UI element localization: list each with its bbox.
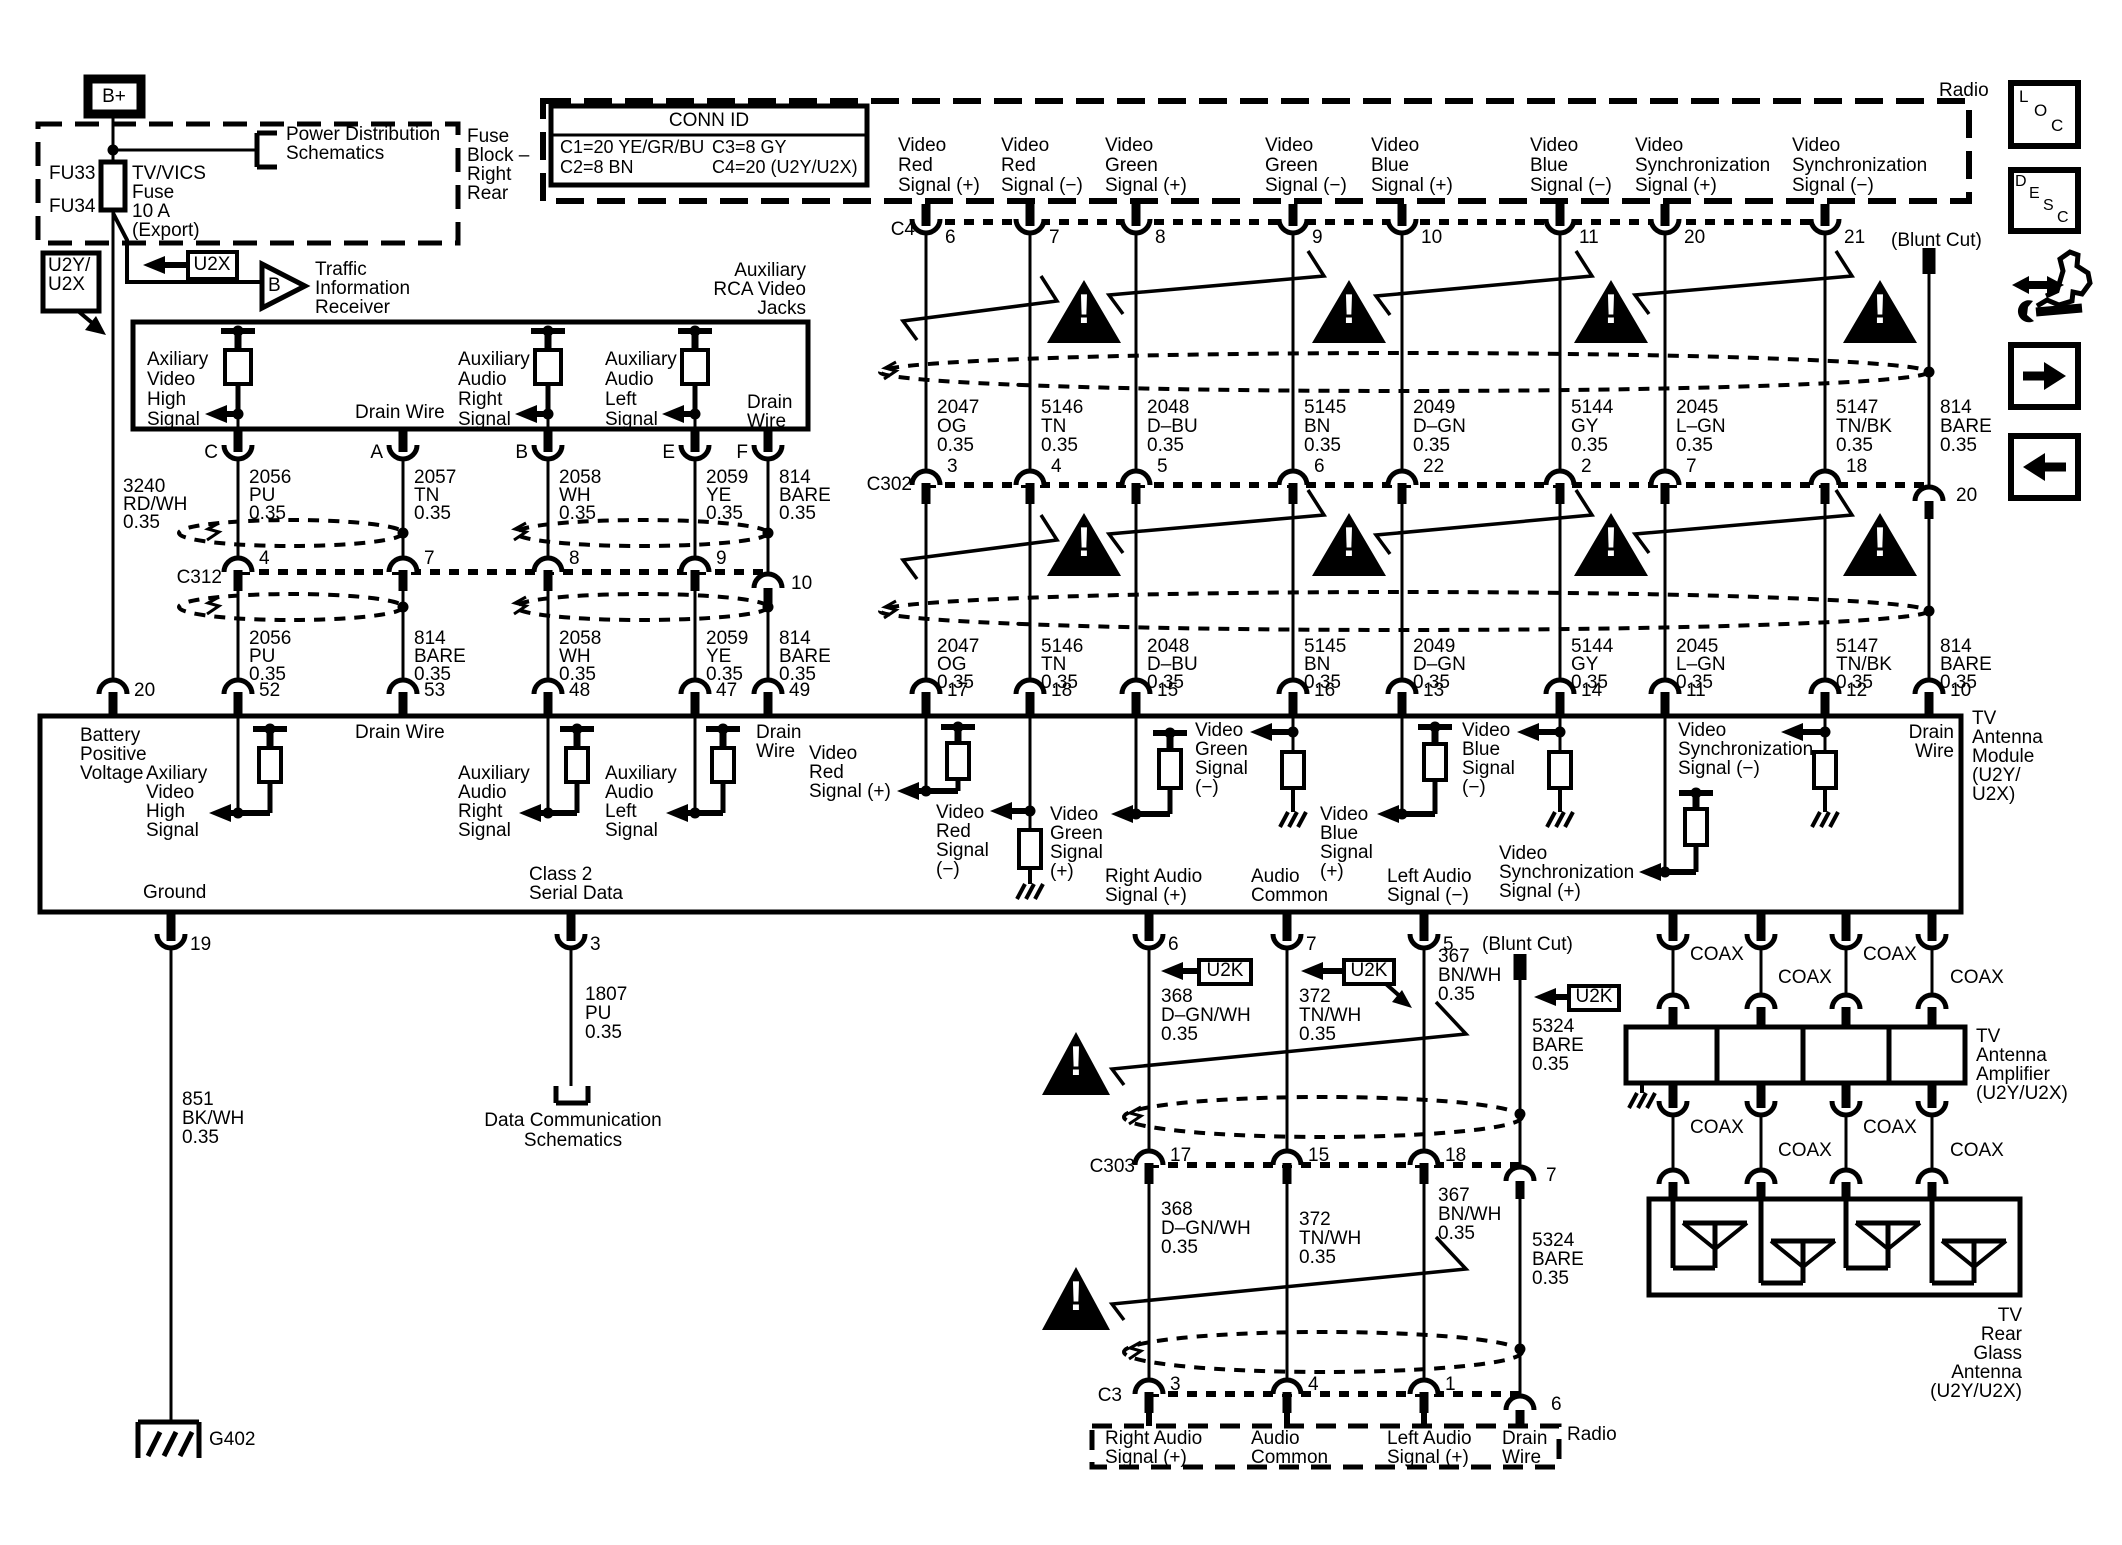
svg-text:L–GN: L–GN	[1676, 416, 1726, 437]
svg-text:Class 2: Class 2	[529, 864, 592, 885]
wire 851 BK/WH 0.35 label	[182, 1089, 244, 1148]
module video green minus input	[1250, 716, 1306, 827]
svg-text:Signal (+): Signal (+)	[1105, 885, 1187, 906]
module pin 11 connector	[1651, 680, 1706, 716]
connector C312 pin 9	[681, 548, 727, 591]
svg-text:17: 17	[947, 680, 968, 701]
wire B to C312	[547, 459, 550, 558]
module pin 17 connector	[912, 680, 968, 716]
warning triangle 2 row2	[1312, 513, 1386, 576]
svg-text:Video: Video	[1530, 135, 1578, 156]
svg-text:RCA Video: RCA Video	[713, 279, 806, 300]
svg-text:Fuse: Fuse	[132, 182, 174, 203]
svg-text:1807: 1807	[585, 984, 627, 1005]
connector terminal B	[515, 429, 562, 463]
svg-text:Auxiliary: Auxiliary	[605, 763, 677, 784]
svg-text:18: 18	[1051, 680, 1072, 701]
coax label 2 upper	[1778, 967, 1832, 988]
node shield drain junction audio row2	[1515, 1344, 1526, 1355]
wire video column 6 C4 to C302	[1559, 233, 1562, 471]
wire audio column 3 to C303	[1423, 948, 1426, 1151]
wire aux C below box	[237, 414, 240, 429]
U2K option box 1 with arrow	[1161, 960, 1251, 984]
module pin 15 connector	[1122, 680, 1178, 716]
coax label 4 upper	[1950, 967, 2004, 988]
svg-text:5145: 5145	[1304, 397, 1346, 418]
svg-text:Antenna: Antenna	[1951, 1362, 2022, 1383]
fuse FU33/FU34 TV/VICS 10A	[101, 162, 125, 210]
svg-text:Block –: Block –	[467, 145, 530, 166]
svg-text:COAX: COAX	[1690, 944, 1744, 965]
twisted pair shield ellipse C-A lower	[179, 594, 403, 620]
svg-text:0.35: 0.35	[1299, 1024, 1336, 1045]
svg-text:Right: Right	[458, 801, 503, 822]
svg-text:0.35: 0.35	[1161, 1024, 1198, 1045]
TV rear glass antenna box	[1649, 1199, 2020, 1295]
svg-text:COAX: COAX	[1863, 1117, 1917, 1138]
svg-text:10 A: 10 A	[132, 201, 170, 222]
svg-text:Red: Red	[809, 762, 844, 783]
svg-text:0.35: 0.35	[414, 503, 451, 524]
wire video column 7 C4 to C302	[1664, 233, 1667, 471]
connector C302 line	[926, 482, 1929, 488]
svg-text:368: 368	[1161, 986, 1193, 1007]
radio bottom label	[1567, 1424, 1617, 1445]
radio output label Video Green Signal (−)	[1265, 135, 1347, 196]
wire fuse down to module pin 20	[112, 210, 115, 680]
warning triangle audio row2	[1042, 1267, 1110, 1330]
wire aux A below box	[402, 428, 405, 431]
svg-text:0.35: 0.35	[1299, 1247, 1336, 1268]
wire F to C312	[767, 459, 770, 572]
svg-text:Green: Green	[1265, 155, 1318, 176]
svg-text:Audio: Audio	[458, 782, 507, 803]
wire 2058 WH 0.35 label (lower)	[559, 628, 601, 685]
module battery positive voltage label	[80, 725, 147, 784]
wire 5145 BN 0.35 label row1	[1304, 397, 1346, 456]
connector C312 pin 7	[389, 548, 435, 591]
svg-text:Video: Video	[809, 743, 857, 764]
svg-text:Ground: Ground	[143, 882, 206, 903]
svg-text:Left Audio: Left Audio	[1387, 1428, 1472, 1449]
svg-text:(Export): (Export)	[132, 220, 200, 241]
TV antenna module label	[1972, 708, 2043, 805]
svg-text:TV: TV	[1998, 1305, 2023, 1326]
connector C312 pin 10	[754, 573, 812, 606]
wire 5145 BN 0.35 label row2	[1304, 636, 1346, 693]
twisted pair shield ellipse C-A upper	[179, 520, 403, 546]
svg-text:Signal (+): Signal (+)	[1105, 175, 1187, 196]
svg-text:6: 6	[1551, 1394, 1562, 1415]
connector C302 pin 18	[1811, 456, 1867, 504]
svg-text:7: 7	[424, 548, 435, 569]
svg-text:Signal: Signal	[458, 409, 511, 430]
svg-text:Wire: Wire	[747, 411, 786, 432]
fuse block dashed box	[38, 124, 458, 243]
wire 5147 TN/BK 0.35 label row2	[1836, 636, 1892, 693]
svg-text:Video: Video	[898, 135, 946, 156]
svg-text:Glass: Glass	[1973, 1343, 2022, 1364]
svg-text:!: !	[1077, 518, 1091, 565]
off-page connector data communication	[556, 1086, 588, 1103]
svg-text:BN/WH: BN/WH	[1438, 1204, 1501, 1225]
wire video column 4 C302 to module	[1292, 504, 1295, 680]
wire 2049 D–GN 0.35 label row2	[1413, 636, 1466, 693]
svg-text:Green: Green	[1050, 823, 1103, 844]
svg-text:!: !	[1604, 285, 1618, 332]
wire audio column 1 into radio	[1146, 1413, 1152, 1426]
svg-text:19: 19	[190, 934, 211, 955]
svg-text:U2X: U2X	[48, 274, 85, 295]
svg-text:Left: Left	[605, 389, 637, 410]
twisted pair shield ellipse video row1	[880, 353, 1928, 391]
svg-text:C: C	[204, 442, 218, 463]
module auxiliary audio right input	[519, 716, 594, 822]
module pin 14 connector	[1546, 680, 1603, 716]
svg-text:18: 18	[1445, 1145, 1466, 1166]
node shield drain junction A lower	[398, 602, 409, 613]
module video blue signal plus label	[1320, 804, 1373, 882]
svg-text:7: 7	[1049, 227, 1060, 248]
module pin 48 connector	[534, 680, 590, 716]
wire audio column 1 to C3	[1148, 1184, 1151, 1380]
connector C302 pin 7	[1651, 456, 1697, 504]
svg-text:BN/WH: BN/WH	[1438, 965, 1501, 986]
svg-text:TN/WH: TN/WH	[1299, 1228, 1361, 1249]
svg-text:2048: 2048	[1147, 397, 1189, 418]
svg-text:6: 6	[945, 227, 956, 248]
svg-text:(U2Y/U2X): (U2Y/U2X)	[1930, 1381, 2022, 1402]
coax cable 2 upper	[1747, 948, 1775, 1027]
svg-text:0.35: 0.35	[182, 1127, 219, 1148]
svg-text:COAX: COAX	[1950, 967, 2004, 988]
svg-text:C303: C303	[1090, 1156, 1135, 1177]
ground G402 symbol	[138, 1422, 199, 1458]
radio output label Video Blue Signal (+)	[1371, 135, 1453, 196]
svg-text:Common: Common	[1251, 885, 1328, 906]
wire 367 BN/WH 0.35 label upper	[1438, 946, 1501, 1005]
svg-text:Schematics: Schematics	[286, 143, 384, 164]
TV antenna amplifier ground	[1629, 1083, 1655, 1108]
svg-text:4: 4	[1308, 1374, 1319, 1395]
svg-text:368: 368	[1161, 1199, 1193, 1220]
svg-text:13: 13	[1423, 680, 1444, 701]
svg-text:5144: 5144	[1571, 397, 1614, 418]
caution callout segment 1 row1	[903, 276, 1057, 340]
module axiliary video high signal label	[146, 763, 208, 841]
svg-text:52: 52	[259, 680, 280, 701]
svg-text:Synchronization: Synchronization	[1678, 739, 1813, 760]
svg-text:7: 7	[1546, 1165, 1557, 1186]
module pin 6 connector	[1135, 912, 1179, 955]
coax label 1 upper	[1690, 944, 1744, 965]
node shield drain junction F lower	[763, 602, 774, 613]
svg-text:9: 9	[716, 548, 727, 569]
svg-text:(Blunt Cut): (Blunt Cut)	[1891, 230, 1982, 251]
module video blue plus input	[1377, 716, 1452, 823]
svg-text:FU34: FU34	[49, 196, 96, 217]
label FU34	[49, 196, 96, 217]
svg-text:COAX: COAX	[1778, 967, 1832, 988]
radio output label Video Synchronization Signal (+)	[1635, 135, 1770, 196]
module pin 10 connector	[1915, 680, 1971, 716]
wire to power distribution schematics	[113, 149, 257, 152]
svg-text:Signal: Signal	[458, 820, 511, 841]
wire video column 6 C302 to module	[1559, 504, 1562, 680]
svg-text:Signal (+): Signal (+)	[898, 175, 980, 196]
module video red signal minus label	[936, 802, 989, 880]
svg-text:17: 17	[1170, 1145, 1191, 1166]
svg-text:F: F	[736, 442, 748, 463]
caution callout audio row2	[1112, 1237, 1466, 1320]
svg-text:BARE: BARE	[1532, 1249, 1584, 1270]
svg-text:Antenna: Antenna	[1976, 1045, 2047, 1066]
svg-text:Left Audio: Left Audio	[1387, 866, 1472, 887]
svg-text:C1=20 YE/GR/BU: C1=20 YE/GR/BU	[560, 137, 704, 157]
svg-text:U2K: U2K	[1207, 960, 1244, 981]
wire video column 8 C302 to module	[1824, 504, 1827, 680]
svg-text:Audio: Audio	[1251, 1428, 1300, 1449]
svg-text:Radio: Radio	[1567, 1424, 1617, 1445]
module right audio signal label	[1105, 866, 1202, 906]
wire 814 BARE 0.35 label row2	[1940, 636, 1992, 693]
svg-text:Amplifier: Amplifier	[1976, 1064, 2051, 1085]
module auxiliary audio right signal label	[458, 763, 530, 841]
svg-text:(−): (−)	[1195, 777, 1219, 798]
svg-text:Audio: Audio	[605, 369, 654, 390]
radio right audio signal label	[1105, 1428, 1202, 1468]
svg-text:BARE: BARE	[1532, 1035, 1584, 1056]
svg-text:Rear: Rear	[1981, 1324, 2023, 1345]
wire 5324 BARE 0.35 label upper	[1532, 1016, 1584, 1075]
off-page bracket power distribution	[257, 133, 277, 167]
svg-text:814: 814	[1940, 397, 1972, 418]
svg-text:Signal: Signal	[936, 840, 989, 861]
svg-text:Traffic: Traffic	[315, 259, 367, 280]
svg-text:0.35: 0.35	[123, 512, 160, 533]
svg-text:Right: Right	[467, 164, 512, 185]
module pin 16 connector	[1279, 680, 1335, 716]
svg-text:Serial Data: Serial Data	[529, 883, 623, 904]
svg-text:C302: C302	[867, 474, 912, 495]
svg-text:0.35: 0.35	[937, 435, 974, 456]
svg-text:C3: C3	[1098, 1385, 1122, 1406]
svg-text:G402: G402	[209, 1429, 255, 1450]
module video red minus input	[990, 716, 1043, 899]
wire aux B below box	[547, 414, 550, 429]
connector C302 pin 6	[1279, 456, 1325, 504]
auxiliary audio left signal label	[605, 349, 677, 430]
svg-text:C4=20 (U2Y/U2X): C4=20 (U2Y/U2X)	[712, 157, 858, 177]
module pin 3 connector	[557, 912, 601, 955]
fuse value label TV/VICS Fuse 10 A (Export)	[132, 163, 206, 241]
wire video column 1 C4 to C302	[925, 233, 928, 471]
warning triangle audio row1	[1042, 1032, 1110, 1095]
svg-text:Signal (+): Signal (+)	[1387, 1447, 1469, 1468]
caution callout segment 3 row2	[1376, 490, 1592, 554]
svg-text:Signal (−): Signal (−)	[1792, 175, 1874, 196]
antenna element 2	[1761, 1199, 1835, 1283]
connector terminal F	[736, 429, 782, 463]
wire 2049 D–GN 0.35 label row1	[1413, 397, 1466, 456]
connector C303 pin 15	[1273, 1145, 1329, 1184]
svg-text:8: 8	[1155, 227, 1166, 248]
warning triangle 2 row1	[1312, 280, 1386, 343]
caution callout segment 1 row2	[903, 515, 1057, 579]
svg-text:2045: 2045	[1676, 397, 1718, 418]
connector C3 label	[1098, 1385, 1122, 1406]
wire audio column 4 to C3	[1519, 1199, 1522, 1394]
svg-text:S: S	[2043, 197, 2054, 214]
svg-text:7: 7	[1306, 934, 1317, 955]
svg-text:0.35: 0.35	[1532, 1054, 1569, 1075]
svg-text:D–GN: D–GN	[1413, 416, 1466, 437]
node shield drain junction row1	[1924, 367, 1935, 378]
U2K option box 3 with arrow	[1534, 986, 1619, 1010]
svg-text:Drain: Drain	[1909, 722, 1954, 743]
svg-text:COAX: COAX	[1778, 1140, 1832, 1161]
svg-text:Signal: Signal	[605, 409, 658, 430]
svg-text:21: 21	[1844, 227, 1865, 248]
svg-text:3: 3	[590, 934, 601, 955]
module video red plus input	[897, 716, 975, 800]
radio label	[1939, 80, 1989, 101]
module drain wire label A	[355, 722, 445, 743]
svg-text:D: D	[2015, 173, 2027, 190]
U2X option box with arrow	[143, 252, 237, 279]
icon repair instructions hand tool	[2012, 252, 2090, 322]
radio left audio signal label	[1387, 1428, 1472, 1468]
wire C below C312	[237, 591, 240, 680]
wire 5144 GY 0.35 label row2	[1571, 636, 1614, 693]
wire 2048 D–BU 0.35 label row1	[1147, 397, 1198, 456]
coax label 2 lower	[1778, 1140, 1832, 1161]
module pin 5 connector	[1410, 912, 1454, 955]
svg-text:3: 3	[947, 456, 958, 477]
aux audio right termination resistor	[515, 326, 565, 424]
svg-text:16: 16	[1314, 680, 1335, 701]
wire 2057 TN 0.35 label	[414, 467, 456, 524]
auxiliary RCA video jacks box	[133, 322, 808, 429]
svg-text:BN: BN	[1304, 416, 1330, 437]
svg-text:Signal: Signal	[1320, 842, 1373, 863]
wire video column 3 C4 to C302	[1135, 233, 1138, 471]
svg-text:367: 367	[1438, 1185, 1470, 1206]
svg-text:Synchronization: Synchronization	[1499, 862, 1634, 883]
wire 2048 D–BU 0.35 label row2	[1147, 636, 1198, 693]
connector C3 pin 4	[1273, 1374, 1319, 1413]
wire video column 5 C4 to C302	[1401, 233, 1404, 471]
svg-text:D–GN/WH: D–GN/WH	[1161, 1005, 1251, 1026]
wire 814 BARE 0.35 label (lower F)	[779, 628, 831, 685]
wire 2045 L–GN 0.35 label row2	[1676, 636, 1726, 693]
twisted pair shield ellipse B-F lower	[514, 594, 768, 620]
aux video high termination resistor	[205, 326, 255, 424]
connector C303 pin 7	[1506, 1165, 1557, 1199]
svg-text:Synchronization: Synchronization	[1792, 155, 1927, 176]
wire video column 4 C4 to C302	[1292, 233, 1295, 471]
wire audio column 3 to C3	[1423, 1184, 1426, 1380]
svg-text:Signal: Signal	[1050, 842, 1103, 863]
blunt cut stub wire 814	[1923, 248, 1936, 274]
svg-text:4: 4	[259, 548, 270, 569]
TV antenna amplifier label	[1976, 1026, 2068, 1104]
wire video column 5 C302 to module	[1401, 504, 1404, 680]
svg-text:Signal: Signal	[146, 820, 199, 841]
svg-text:TN/WH: TN/WH	[1299, 1005, 1361, 1026]
svg-text:Drain: Drain	[747, 392, 792, 413]
svg-text:0.35: 0.35	[1147, 435, 1184, 456]
svg-text:Signal: Signal	[605, 820, 658, 841]
radio drain wire label	[1502, 1428, 1547, 1468]
svg-text:Right: Right	[458, 389, 503, 410]
svg-text:5324: 5324	[1532, 1016, 1575, 1037]
svg-text:48: 48	[569, 680, 590, 701]
svg-text:Battery: Battery	[80, 725, 141, 746]
wire audio column 2 to C303	[1286, 948, 1289, 1151]
svg-text:Audio: Audio	[1251, 866, 1300, 887]
radio output label Video Blue Signal (−)	[1530, 135, 1612, 196]
svg-text:U2Y/: U2Y/	[48, 255, 91, 276]
svg-text:BARE: BARE	[1940, 416, 1992, 437]
module audio common label	[1251, 866, 1328, 906]
module pin 18 connector	[1016, 680, 1072, 716]
svg-text:Blue: Blue	[1320, 823, 1358, 844]
connector C4 pin 11	[1546, 204, 1599, 248]
battery positive B+ symbol	[88, 79, 141, 114]
connector C312 label	[177, 567, 222, 588]
svg-text:Video: Video	[1001, 135, 1049, 156]
module coax pin 1 connector	[1659, 912, 1687, 948]
svg-text:C: C	[2057, 209, 2069, 226]
svg-text:Signal: Signal	[147, 409, 200, 430]
svg-text:Auxiliary: Auxiliary	[458, 763, 530, 784]
svg-text:5: 5	[1157, 456, 1168, 477]
wire audio column 4 into radio	[1517, 1426, 1523, 1428]
svg-text:0.35: 0.35	[1571, 435, 1608, 456]
coax cable 4 upper	[1918, 948, 1946, 1027]
wire E to C312	[694, 459, 697, 558]
svg-text:D–GN/WH: D–GN/WH	[1161, 1218, 1251, 1239]
twisted pair shield ellipse video row2	[880, 592, 1928, 630]
svg-text:A: A	[370, 442, 383, 463]
svg-text:4: 4	[1051, 456, 1062, 477]
connector terminal C	[204, 429, 252, 463]
radio audio common label	[1251, 1428, 1328, 1468]
svg-text:Video: Video	[1105, 135, 1153, 156]
module pin 19 connector	[157, 912, 211, 955]
svg-text:Wire: Wire	[756, 741, 795, 762]
coax cable 3 lower	[1832, 1083, 1860, 1199]
svg-text:Drain: Drain	[1502, 1428, 1547, 1449]
module video red signal plus label	[809, 743, 891, 802]
module pin 53 connector	[389, 680, 445, 716]
module pin 47 connector	[681, 680, 737, 716]
svg-text:12: 12	[1846, 680, 1867, 701]
svg-text:TV: TV	[1976, 1026, 2001, 1047]
svg-text:Signal (+): Signal (+)	[1105, 1447, 1187, 1468]
wire video column 2 C4 to C302	[1029, 233, 1032, 471]
module video green signal plus label	[1050, 804, 1103, 882]
svg-text:Auxiliary: Auxiliary	[458, 349, 530, 370]
module auxiliary audio left signal label	[605, 763, 677, 841]
module drain wire label col9	[1909, 722, 1954, 762]
connector C4 pin 10	[1388, 204, 1442, 248]
data communication schematics label	[484, 1110, 661, 1151]
icon back arrow box	[2011, 436, 2078, 498]
svg-text:L: L	[2019, 87, 2028, 106]
svg-text:Video: Video	[1195, 720, 1243, 741]
